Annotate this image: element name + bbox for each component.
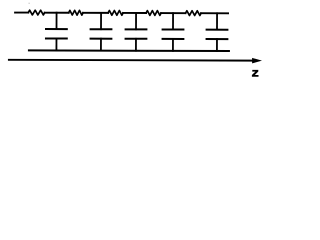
resistor R1: [28, 10, 44, 15]
faint scan artifact dot: [29, 3, 30, 4]
wire node B (top of C2): [83, 12, 108, 14]
wire node A (top of C1): [45, 12, 69, 14]
capacitor C1: [46, 13, 67, 51]
capacitor C5: [207, 13, 228, 51]
resistor R5: [186, 11, 202, 16]
wire top-left lead: [15, 12, 28, 14]
capacitor C4: [163, 13, 184, 51]
resistor R2: [69, 10, 83, 15]
z-axis arrow line: [9, 57, 262, 63]
capacitor C3: [126, 13, 147, 51]
wire node C (top of C3): [123, 12, 146, 14]
axis label z: [252, 70, 259, 77]
wire node D (top of C4): [161, 12, 185, 14]
wire node E (top of C5): [201, 12, 228, 14]
resistor R4: [146, 11, 161, 16]
resistor R3: [108, 10, 123, 15]
wire bottom ground rail: [29, 49, 229, 52]
capacitor C2: [91, 13, 112, 51]
